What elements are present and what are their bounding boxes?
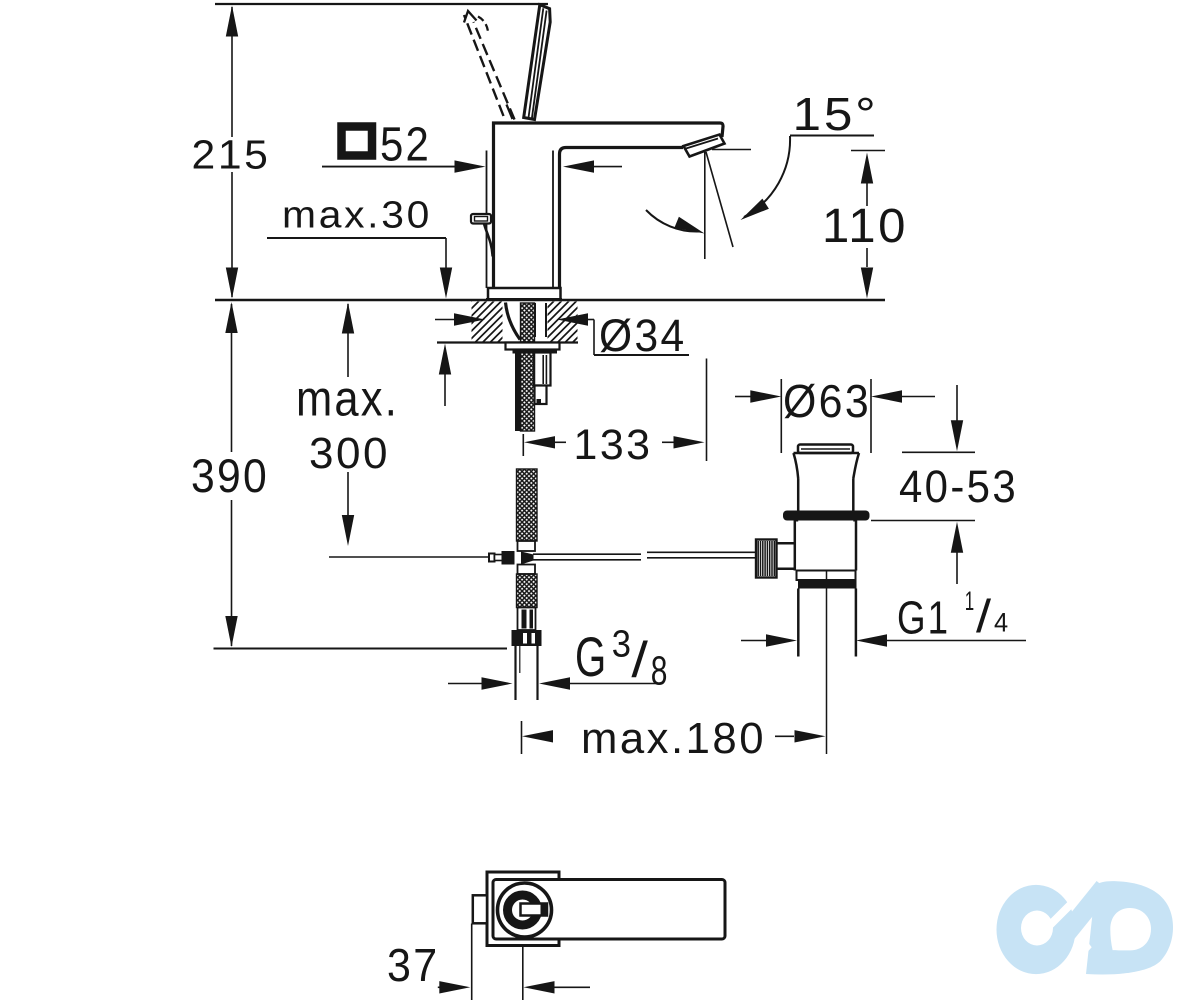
shank body [534, 353, 551, 386]
dimension 37 [387, 939, 590, 994]
shank step [535, 386, 547, 405]
svg-text:133: 133 [574, 421, 653, 469]
top view body square [487, 872, 559, 946]
top view extension line [471, 924, 473, 1000]
svg-text:15°: 15° [793, 88, 879, 140]
faucet aerator [684, 135, 725, 157]
dimension 110 [822, 151, 908, 299]
pop-up rod right [647, 552, 757, 558]
hose braid shank [521, 353, 535, 432]
dimension max.300 [296, 303, 489, 558]
svg-text:Ø34: Ø34 [599, 310, 687, 361]
svg-text:/: / [976, 590, 994, 642]
svg-text:110: 110 [822, 200, 908, 253]
svg-text:40-53: 40-53 [899, 461, 1018, 512]
counter hatch left [472, 302, 503, 342]
mounting surface line [215, 299, 885, 301]
svg-text:max.180: max.180 [581, 714, 766, 763]
svg-text:215: 215 [192, 132, 271, 178]
hose collar upper [518, 541, 536, 551]
hose braid middle [517, 469, 538, 541]
hose braid lower [517, 574, 538, 608]
washer [506, 343, 560, 350]
top view slot [521, 904, 548, 916]
dimension max.30 [267, 195, 452, 407]
hose end nut [512, 630, 542, 646]
dimension 215 [192, 6, 271, 299]
dimension G3/8 [448, 624, 669, 694]
lower reference line (hose end) [214, 648, 508, 650]
dimension Ø34 [435, 310, 689, 361]
counter hatch right [548, 302, 578, 342]
dimension Ø63 [735, 375, 935, 453]
drain plug cap [798, 445, 853, 454]
watermark logo [997, 881, 1174, 974]
svg-text:max.30: max.30 [282, 195, 432, 237]
locknut band [513, 350, 558, 354]
faucet body inner edge right [552, 151, 554, 289]
top view left tab [473, 895, 487, 923]
drain cylinder [798, 479, 853, 512]
drain flare [794, 453, 860, 479]
hose curve in hole [506, 303, 521, 340]
svg-text:Ø63: Ø63 [783, 375, 871, 427]
shank wall right [535, 303, 546, 337]
second hose strip [515, 351, 521, 431]
hose end fitting [518, 608, 536, 631]
svg-text:300: 300 [309, 429, 390, 478]
drain body [795, 521, 856, 571]
water stream line vertical [704, 152, 706, 259]
hose collar lower [518, 565, 536, 575]
svg-text:1: 1 [965, 586, 976, 616]
svg-text:G: G [575, 625, 608, 688]
faucet body extension line left [486, 151, 488, 289]
counter bottom line [437, 341, 578, 343]
svg-text:37: 37 [387, 939, 440, 991]
pop-up rod knob stem [484, 224, 493, 257]
water stream line tilted [706, 152, 733, 247]
svg-text:4: 4 [994, 608, 1011, 638]
swivel arc right [741, 136, 791, 220]
top view outer circle [498, 883, 552, 937]
svg-text:/: / [631, 632, 651, 688]
hose braid upper [521, 303, 535, 342]
svg-text:8: 8 [651, 648, 670, 694]
drain thread band [798, 580, 857, 589]
svg-text:max.: max. [296, 371, 399, 427]
hose pipe [516, 646, 538, 700]
top view center line [522, 946, 524, 1000]
drain tailpipe [798, 589, 856, 657]
lever motion arrow [464, 11, 488, 32]
top view cartridge ring [508, 895, 538, 925]
faucet lever dashed position [464, 15, 515, 120]
top view spout [493, 880, 725, 940]
dimension G1 1/4 [741, 586, 1026, 647]
pop-up rod clamp [489, 551, 534, 565]
dimension 15° [790, 88, 879, 140]
dimension 390 [191, 302, 269, 647]
svg-text:390: 390 [191, 449, 269, 502]
pop-up rod left [533, 554, 641, 560]
top reference line [215, 3, 548, 5]
drain lower ring [797, 571, 856, 581]
faucet lever solid [524, 5, 551, 120]
dimension max.180 [522, 714, 826, 763]
aerator reference line [712, 149, 751, 151]
svg-text:3: 3 [612, 624, 634, 666]
swivel arc left [646, 210, 705, 234]
drain inlet [776, 543, 795, 568]
faucet base [486, 288, 562, 300]
drain knurled nut [756, 540, 777, 578]
svg-text:52: 52 [380, 119, 431, 172]
faucet body outline [494, 123, 724, 288]
drain center line [826, 570, 828, 754]
top view key [541, 905, 547, 915]
dimension □52 label [322, 119, 622, 173]
dimension 133 [523, 359, 706, 470]
svg-text:G1: G1 [897, 592, 950, 644]
drain seal ring [783, 511, 870, 521]
dimension 40-53 [871, 385, 1018, 584]
side knob [471, 214, 491, 224]
